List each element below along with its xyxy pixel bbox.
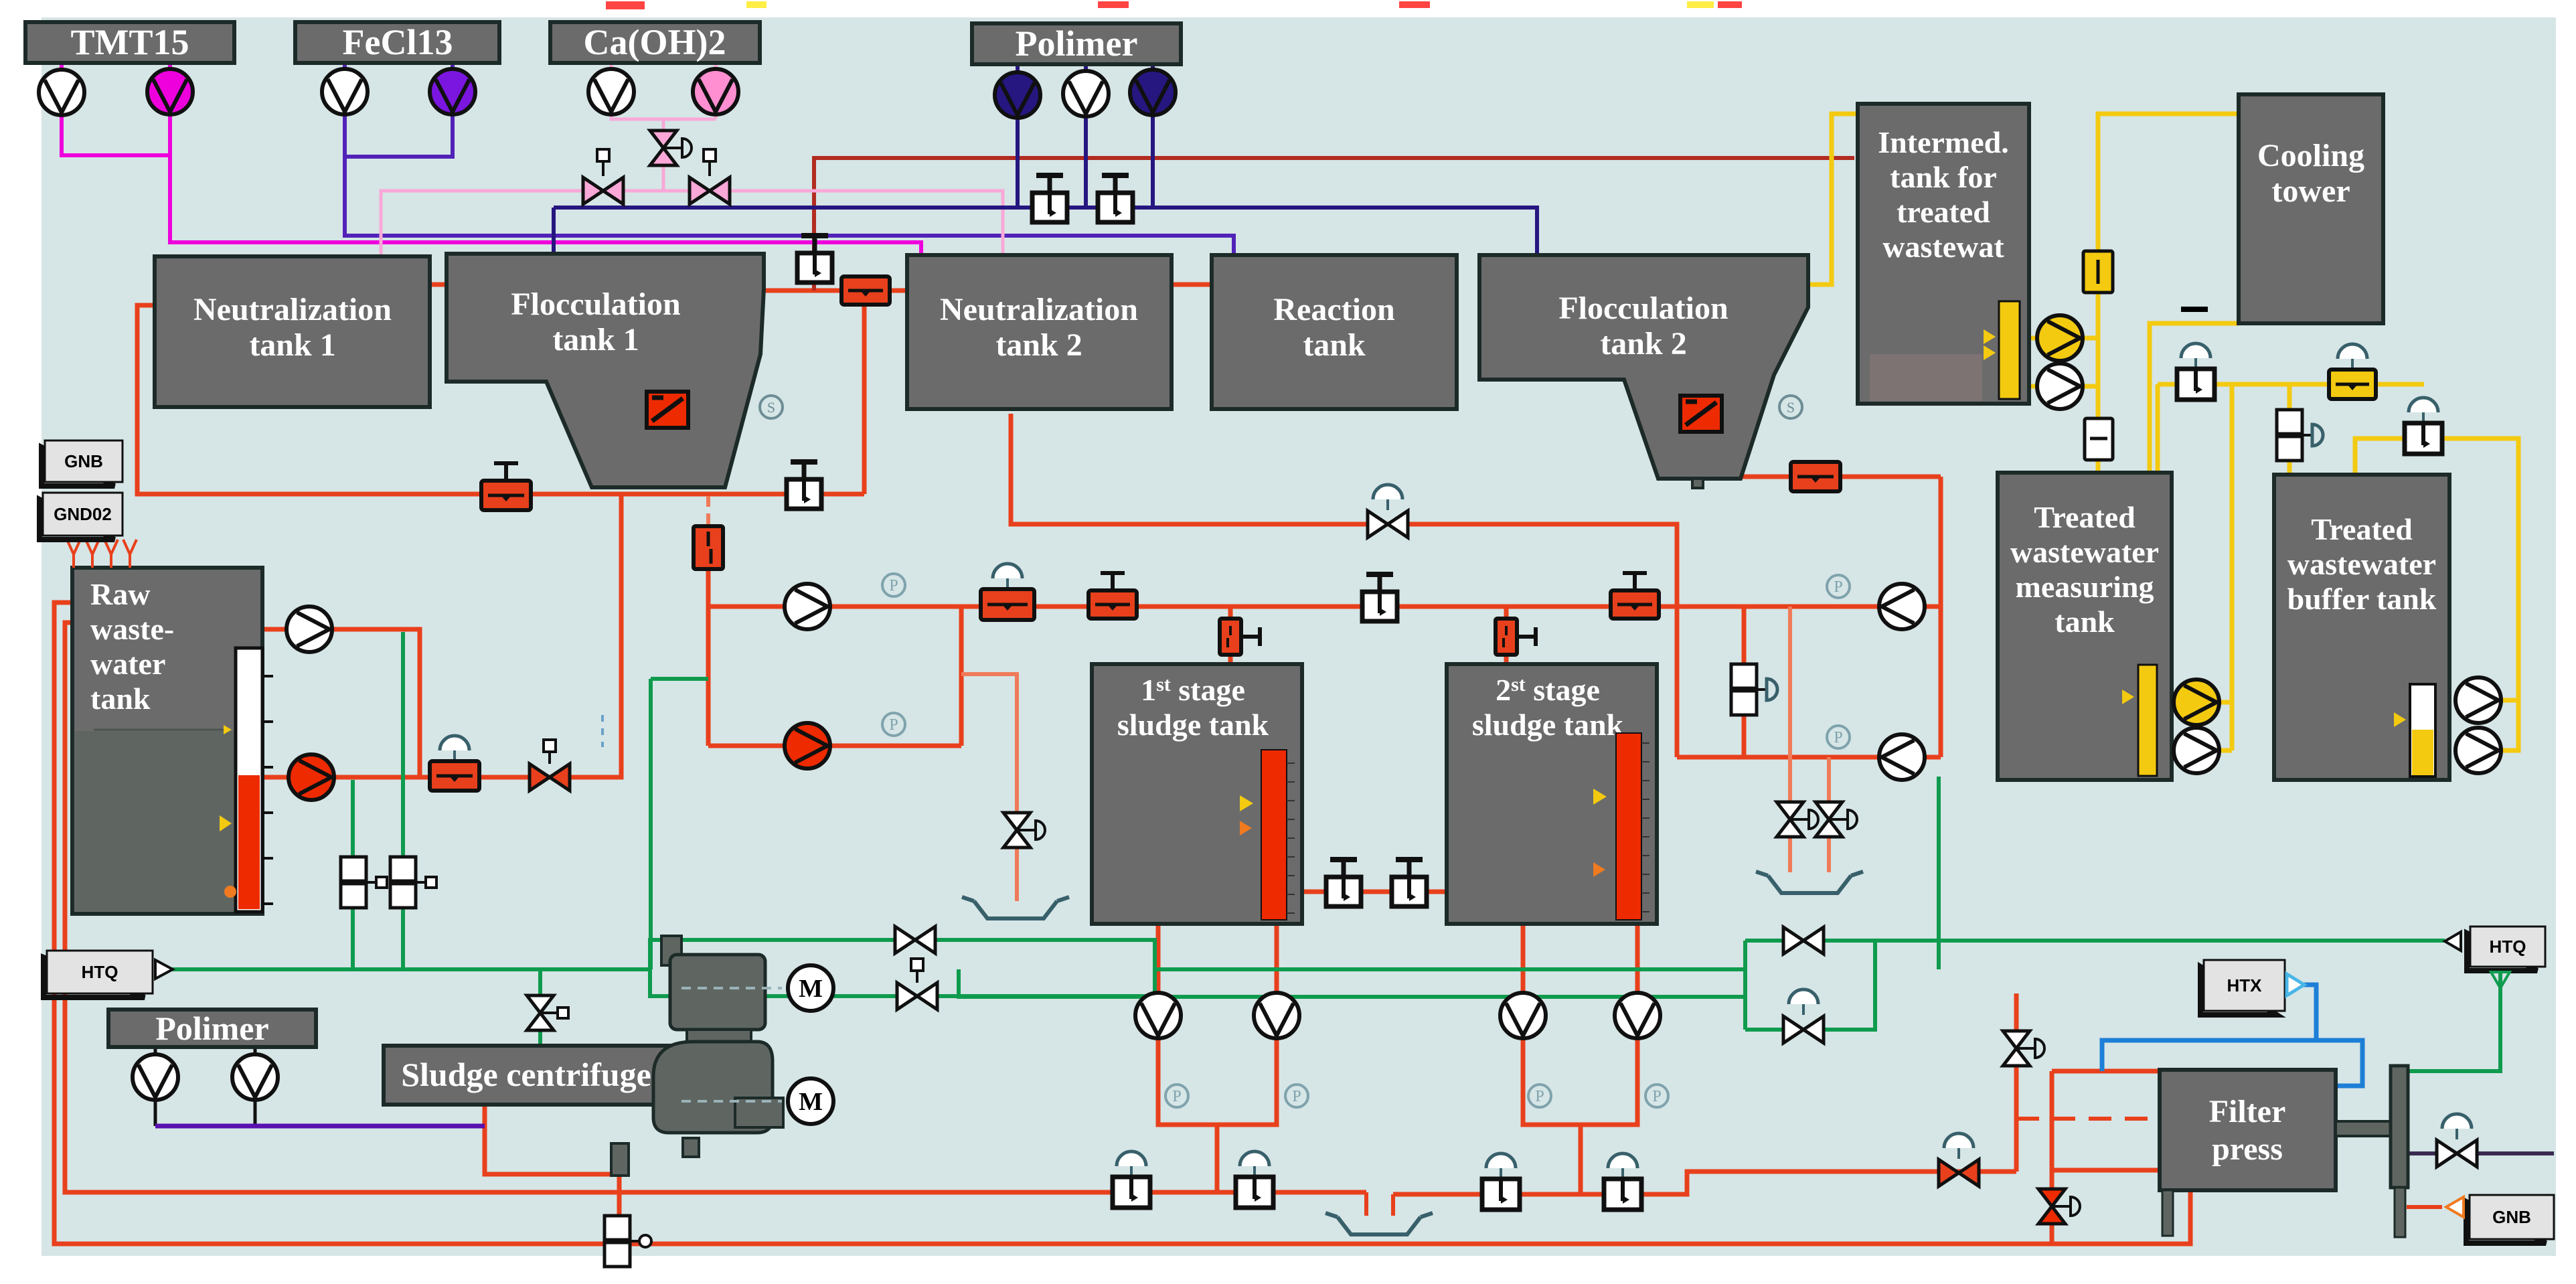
svg-text:tank: tank: [1303, 327, 1366, 363]
svg-text:HTQ: HTQ: [2490, 937, 2526, 957]
svg-text:tank 1: tank 1: [552, 322, 639, 357]
svg-text:tank 2: tank 2: [1600, 326, 1686, 362]
svg-text:Flocculation: Flocculation: [511, 287, 680, 322]
svg-text:tank for: tank for: [1890, 160, 1997, 194]
svg-text:S: S: [1787, 399, 1795, 416]
svg-text:GNB: GNB: [2492, 1207, 2531, 1227]
svg-text:Intermed.: Intermed.: [1878, 125, 2008, 159]
svg-text:P: P: [1172, 1088, 1181, 1105]
svg-text:wastewater: wastewater: [2287, 547, 2436, 581]
svg-text:GNB: GNB: [64, 451, 103, 471]
svg-text:tank 2: tank 2: [995, 327, 1082, 363]
svg-text:tank: tank: [90, 681, 151, 716]
svg-text:sludge tank: sludge tank: [1472, 708, 1624, 742]
svg-text:wastewat: wastewat: [1882, 230, 2004, 264]
svg-text:Sludge centrifuge: Sludge centrifuge: [401, 1056, 651, 1093]
svg-text:Polimer: Polimer: [155, 1010, 268, 1047]
svg-text:Filter: Filter: [2209, 1094, 2286, 1129]
svg-text:P: P: [1535, 1088, 1544, 1105]
svg-text:HTQ: HTQ: [82, 962, 118, 982]
svg-text:P: P: [889, 716, 898, 734]
svg-text:TMT15: TMT15: [70, 22, 189, 62]
svg-text:P: P: [1834, 729, 1842, 746]
svg-text:FeCl13: FeCl13: [343, 22, 453, 62]
svg-text:Neutralization: Neutralization: [193, 292, 392, 327]
svg-text:sludge tank: sludge tank: [1117, 708, 1269, 742]
svg-text:Neutralization: Neutralization: [940, 292, 1138, 327]
svg-text:tank 1: tank 1: [249, 327, 335, 363]
svg-text:M: M: [799, 975, 823, 1003]
svg-text:Flocculation: Flocculation: [1558, 291, 1728, 326]
svg-text:P: P: [1292, 1088, 1301, 1105]
svg-text:press: press: [2212, 1131, 2283, 1167]
svg-text:S: S: [767, 399, 775, 416]
svg-text:P: P: [1834, 578, 1842, 596]
svg-text:wastewater: wastewater: [2010, 535, 2159, 569]
svg-text:Raw: Raw: [90, 577, 150, 611]
svg-text:waste-: waste-: [90, 612, 174, 646]
svg-text:buffer tank: buffer tank: [2287, 582, 2437, 616]
svg-text:P: P: [1652, 1088, 1661, 1105]
svg-text:Treated: Treated: [2034, 500, 2136, 534]
svg-text:Reaction: Reaction: [1273, 292, 1394, 327]
svg-text:P: P: [889, 577, 898, 594]
svg-text:Polimer: Polimer: [1016, 23, 1138, 64]
svg-text:Treated: Treated: [2311, 512, 2413, 546]
svg-text:Cooling: Cooling: [2257, 138, 2364, 173]
svg-text:tower: tower: [2271, 173, 2350, 209]
svg-text:tank: tank: [2055, 605, 2115, 639]
svg-text:Ca(OH)2: Ca(OH)2: [584, 22, 726, 62]
svg-text:HTX: HTX: [2227, 975, 2263, 995]
svg-text:GND02: GND02: [54, 504, 112, 524]
svg-text:M: M: [799, 1088, 823, 1116]
svg-text:treated: treated: [1897, 195, 1990, 229]
svg-text:water: water: [90, 647, 165, 681]
svg-text:measuring: measuring: [2016, 570, 2154, 604]
